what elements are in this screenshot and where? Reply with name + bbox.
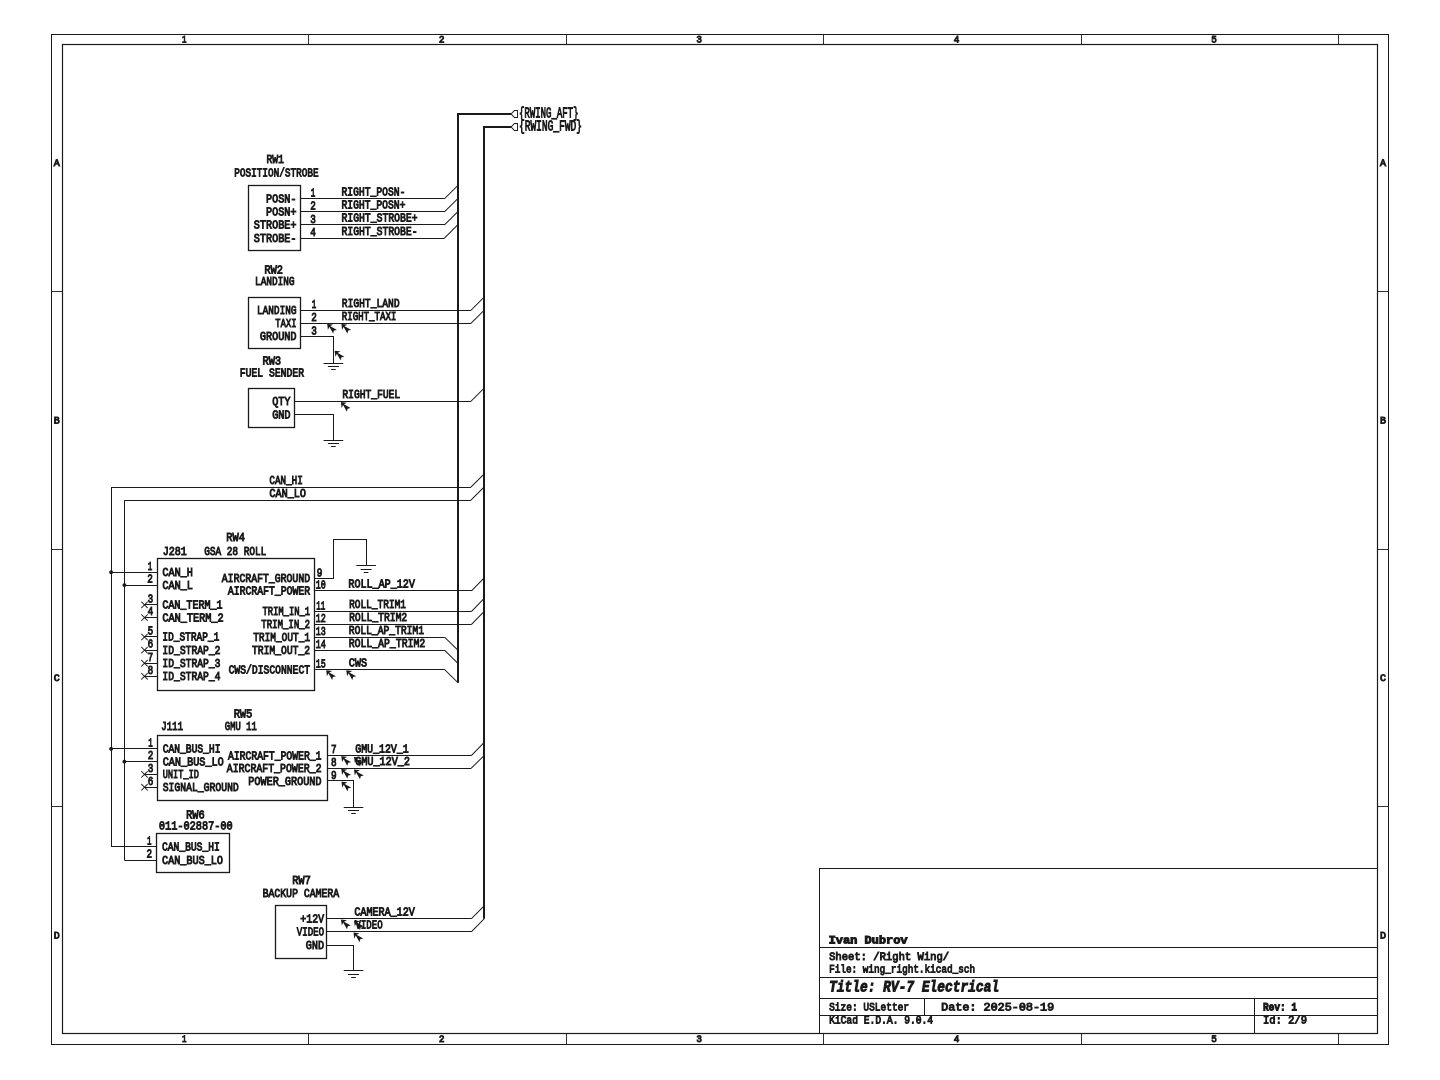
svg-text:POSITION/STROBE: POSITION/STROBE xyxy=(234,166,318,180)
svg-text:B: B xyxy=(54,417,60,428)
bus entry CAN_HI to RWING_FWD xyxy=(471,474,484,487)
RW7 pin VIDEO xyxy=(297,926,324,940)
svg-text:RIGHT_POSN-: RIGHT_POSN- xyxy=(342,186,406,200)
wire CWS xyxy=(314,669,445,671)
net label ROLL_AP_TRIM2 xyxy=(349,637,425,651)
ERC marker 2 on GMU_12V_2 wire xyxy=(354,770,364,780)
net label RIGHT_TAXI xyxy=(342,310,397,324)
bus entry VIDEO to RWING_FWD xyxy=(471,919,484,932)
svg-text:D: D xyxy=(54,932,60,943)
RW5 pin-group label J111 xyxy=(161,720,183,734)
RW4 pin 9 AIRCRAFT_GROUND xyxy=(222,566,323,586)
net label GMU_12V_1 xyxy=(355,742,408,756)
net label CAN_HI xyxy=(269,474,302,488)
ERC marker on RIGHT_TAXI wire xyxy=(327,324,337,334)
hierarchical label {RWING_AFT} xyxy=(511,107,578,123)
wire GMU_12V_2 xyxy=(328,768,472,770)
RW1 pin 1 POSN- xyxy=(266,187,315,207)
no-connect X on RW4 pin 4 xyxy=(141,614,147,620)
frame row dividers xyxy=(51,292,1388,807)
svg-text:1: 1 xyxy=(182,1035,187,1046)
bus entry RIGHT_POSN- to RWING_AFT xyxy=(444,186,457,199)
RW4 pin-group label J281 xyxy=(163,545,187,559)
net label ROLL_AP_12V xyxy=(348,578,415,592)
svg-text:6: 6 xyxy=(148,775,154,789)
connector RW1 body xyxy=(249,186,301,251)
connector RW2 body xyxy=(249,298,301,349)
RW4 pin 6 ID_STRAP_2 (no connect) xyxy=(145,638,221,658)
svg-text:GMU_12V_2: GMU_12V_2 xyxy=(355,755,410,769)
net label RIGHT_STROBE+ xyxy=(342,212,418,226)
svg-text:TRIM_IN_2: TRIM_IN_2 xyxy=(261,618,310,632)
svg-text:CAN_L: CAN_L xyxy=(162,579,193,593)
svg-text:+12V: +12V xyxy=(300,913,324,927)
RW5 pin 7 AIRCRAFT_POWER_1 xyxy=(228,743,337,763)
svg-text:TRIM_OUT_1: TRIM_OUT_1 xyxy=(253,631,310,645)
svg-text:A: A xyxy=(1380,159,1386,170)
net label RIGHT_LAND xyxy=(342,297,400,311)
RW5 pin 3 UNIT_ID (no connect) xyxy=(145,762,200,782)
svg-text:8: 8 xyxy=(331,756,337,770)
bus entry ROLL_AP_TRIM2 to RWING_AFT xyxy=(445,650,458,663)
svg-text:CAN_LO: CAN_LO xyxy=(269,487,306,501)
RW7 pin +12V xyxy=(300,913,324,927)
ERC marker on GMU_12V_2 wire xyxy=(341,769,351,779)
connector RW3 reference label xyxy=(263,355,282,369)
svg-text:2: 2 xyxy=(147,848,153,862)
bus RWING_FWD xyxy=(484,127,511,919)
bus entry RIGHT_FUEL to RWING_FWD xyxy=(471,388,484,401)
svg-text:LANDING: LANDING xyxy=(257,304,297,318)
svg-text:C: C xyxy=(54,674,60,685)
title block title RV-7 Electrical xyxy=(829,979,999,997)
svg-text:ID_STRAP_3: ID_STRAP_3 xyxy=(162,657,220,671)
RW4 pin 10 AIRCRAFT_POWER xyxy=(228,579,326,599)
ERC marker 2 on GMU_12V_1 wire xyxy=(354,757,364,767)
svg-text:011-02887-00: 011-02887-00 xyxy=(159,820,233,834)
net label CWS xyxy=(349,656,367,670)
wire GMU_12V_1 xyxy=(328,755,472,757)
net label CAN_LO xyxy=(269,487,306,501)
svg-text:Size: USLetter: Size: USLetter xyxy=(829,1002,909,1014)
ERC marker on CAMERA_12V wire xyxy=(341,920,351,930)
svg-text:RW1: RW1 xyxy=(267,153,284,167)
svg-text:RIGHT_POSN+: RIGHT_POSN+ xyxy=(342,199,406,213)
svg-text:CAN_HI: CAN_HI xyxy=(269,474,302,488)
connector RW2 value label LANDING xyxy=(255,275,295,289)
wire RIGHT_STROBE+ xyxy=(301,224,444,226)
svg-text:Id: 2/9: Id: 2/9 xyxy=(1263,1016,1307,1028)
ERC marker on RW2 ground wire xyxy=(335,351,345,361)
svg-text:GMU 11: GMU 11 xyxy=(225,720,257,734)
svg-text:2: 2 xyxy=(439,1035,445,1046)
svg-text:RIGHT_FUEL: RIGHT_FUEL xyxy=(342,388,400,402)
bus entry RIGHT_STROBE+ to RWING_AFT xyxy=(444,212,457,225)
bus RWING_AFT xyxy=(458,114,511,683)
svg-text:AIRCRAFT_POWER: AIRCRAFT_POWER xyxy=(228,585,310,599)
wire CAN_LO to RW5 pin 2 xyxy=(124,761,157,763)
wire ROLL_AP_12V xyxy=(314,590,471,592)
connector RW6 value label 011-02887-00 xyxy=(159,820,233,834)
wire ROLL_TRIM1 xyxy=(314,611,471,613)
junction CAN_LO at RW4 xyxy=(123,583,127,587)
svg-text:STROBE+: STROBE+ xyxy=(254,219,297,233)
title block author Ivan Dubrov xyxy=(829,935,908,947)
svg-text:Ivan Dubrov: Ivan Dubrov xyxy=(829,935,908,947)
connector RW7 reference label xyxy=(292,874,311,888)
no-connect X on RW4 pin 3 xyxy=(141,602,147,608)
ERC marker on RW5 ground wire xyxy=(342,782,352,792)
connector RW6 reference label xyxy=(186,808,205,822)
net label RIGHT_STROBE- xyxy=(342,225,418,239)
RW6 pin 1 CAN_BUS_HI xyxy=(147,835,220,855)
bus entry ROLL_TRIM1 to RWING_FWD xyxy=(472,598,485,611)
no-connect X on RW4 pin 5 xyxy=(141,634,147,640)
svg-text:TAXI: TAXI xyxy=(275,317,296,331)
wire RW4 pin 9 to ground xyxy=(314,540,366,579)
svg-text:4: 4 xyxy=(954,1035,960,1046)
svg-text:VIDEO: VIDEO xyxy=(355,919,382,933)
svg-text:8: 8 xyxy=(148,664,154,678)
RW4 pin 8 ID_STRAP_4 (no connect) xyxy=(145,664,221,684)
wire ROLL_AP_TRIM1 xyxy=(314,637,445,639)
svg-text:1: 1 xyxy=(182,35,187,46)
svg-text:FUEL SENDER: FUEL SENDER xyxy=(240,366,304,380)
RW5 pin 8 AIRCRAFT_POWER_2 xyxy=(227,756,337,776)
RW2 pin 3 GROUND xyxy=(260,324,317,344)
connector RW7 body xyxy=(276,906,327,959)
svg-text:ROLL_AP_12V: ROLL_AP_12V xyxy=(348,578,415,592)
svg-text:TRIM_OUT_2: TRIM_OUT_2 xyxy=(252,644,310,658)
ERC marker 2 on RIGHT_TAXI wire xyxy=(341,324,351,334)
net label CAMERA_12V xyxy=(354,906,415,920)
wire ROLL_AP_TRIM2 xyxy=(314,650,445,652)
hierarchical label {RWING_FWD} xyxy=(511,120,582,136)
connector RW2 reference label xyxy=(264,264,283,278)
svg-text:CAN_BUS_LO: CAN_BUS_LO xyxy=(162,854,223,868)
connector RW5 reference label xyxy=(234,707,253,721)
svg-text:ID_STRAP_2: ID_STRAP_2 xyxy=(162,644,220,658)
svg-text:4: 4 xyxy=(148,605,154,619)
RW6 pin 2 CAN_BUS_LO xyxy=(147,848,224,868)
RW3 pin GND xyxy=(272,408,290,422)
no-connect X on RW4 pin 6 xyxy=(141,647,147,653)
ERC marker on VIDEO wire xyxy=(354,933,364,943)
svg-text:ID_STRAP_1: ID_STRAP_1 xyxy=(162,631,219,645)
connector RW1 POSITION/STROBE reference label xyxy=(267,153,284,167)
ERC marker 2 on CWS wire xyxy=(346,670,356,680)
svg-text:{RWING_FWD}: {RWING_FWD} xyxy=(519,120,582,136)
svg-text:3: 3 xyxy=(696,35,702,46)
svg-text:5: 5 xyxy=(1211,1035,1217,1046)
svg-text:7: 7 xyxy=(148,651,154,665)
wire CAN_LO xyxy=(125,501,471,861)
RW4 pin 4 CAN_TERM_2 (no connect) xyxy=(145,605,224,625)
svg-text:D: D xyxy=(1380,932,1386,943)
svg-text:C: C xyxy=(1380,674,1386,685)
svg-text:CAN_TERM_2: CAN_TERM_2 xyxy=(162,611,223,625)
title block sheet name xyxy=(829,952,949,964)
net label RIGHT_POSN- xyxy=(342,186,406,200)
RW4 pin 13 TRIM_OUT_1 xyxy=(253,625,326,645)
svg-text:CAN_BUS_HI: CAN_BUS_HI xyxy=(162,841,220,855)
RW3 pin QTY xyxy=(272,395,291,409)
svg-text:CAMERA_12V: CAMERA_12V xyxy=(354,906,415,920)
bus entry GMU_12V_2 to RWING_FWD xyxy=(471,756,484,769)
wire RIGHT_LAND xyxy=(301,310,471,312)
wire ROLL_TRIM2 xyxy=(314,624,471,626)
bus entry RIGHT_LAND to RWING_FWD xyxy=(471,297,484,310)
svg-text:SIGNAL_GROUND: SIGNAL_GROUND xyxy=(163,781,239,795)
svg-text:GROUND: GROUND xyxy=(260,330,297,344)
wire CAN_HI xyxy=(112,488,471,847)
svg-text:Title: RV-7 Electrical: Title: RV-7 Electrical xyxy=(829,979,999,997)
RW4 pin 2 CAN_L xyxy=(147,573,193,593)
bus entry RIGHT_POSN+ to RWING_AFT xyxy=(444,199,457,212)
RW2 pin 2 TAXI xyxy=(275,311,317,331)
wire RW3 ground xyxy=(295,415,334,441)
svg-text:2: 2 xyxy=(439,35,445,46)
svg-text:VIDEO: VIDEO xyxy=(297,926,324,940)
title block paper size xyxy=(829,1002,909,1014)
connector RW4 value label GSA 28 ROLL xyxy=(204,545,266,559)
RW7 pin GND xyxy=(306,939,324,953)
wire CAMERA_12V xyxy=(327,918,471,920)
svg-text:6: 6 xyxy=(148,638,154,652)
svg-text:TRIM_IN_1: TRIM_IN_1 xyxy=(263,605,311,619)
svg-text:3: 3 xyxy=(696,1035,702,1046)
net label ROLL_TRIM2 xyxy=(349,611,407,625)
svg-text:RIGHT_STROBE+: RIGHT_STROBE+ xyxy=(342,212,418,226)
RW5 pin 2 CAN_BUS_LO xyxy=(148,749,224,769)
connector RW5 body xyxy=(158,736,328,801)
svg-text:Rev: 1: Rev: 1 xyxy=(1263,1002,1297,1014)
svg-text:2: 2 xyxy=(147,573,153,587)
RW1 pin 2 POSN+ xyxy=(266,200,316,220)
junction CAN_LO at RW5 xyxy=(123,760,127,764)
svg-text:Sheet: /Right Wing/: Sheet: /Right Wing/ xyxy=(829,952,949,964)
ground symbol GND RW3 xyxy=(324,441,344,447)
bus entry ROLL_AP_12V to RWING_FWD xyxy=(472,578,485,591)
wire RIGHT_POSN+ xyxy=(301,211,444,213)
frame row labels A-D xyxy=(54,159,1386,942)
connector RW1 value label POSITION/STROBE xyxy=(234,166,318,180)
title block revision xyxy=(1263,1002,1297,1014)
bus entry CAN_LO to RWING_FWD xyxy=(471,487,484,500)
title block date xyxy=(941,1002,1054,1014)
svg-text:POWER_GROUND: POWER_GROUND xyxy=(248,775,321,789)
RW4 pin 5 ID_STRAP_1 (no connect) xyxy=(145,625,220,645)
bus entry CAMERA_12V to RWING_FWD xyxy=(471,906,484,919)
svg-text:J111: J111 xyxy=(161,720,183,734)
svg-text:ROLL_TRIM2: ROLL_TRIM2 xyxy=(349,611,407,625)
svg-text:RW4: RW4 xyxy=(226,531,245,545)
ERC marker on RIGHT_FUEL wire xyxy=(341,402,351,412)
wire RIGHT_POSN- xyxy=(301,198,444,200)
svg-text:RIGHT_STROBE-: RIGHT_STROBE- xyxy=(342,225,418,239)
no-connect X on RW4 pin 8 xyxy=(141,673,147,679)
RW4 pin 3 CAN_TERM_1 (no connect) xyxy=(145,593,223,613)
svg-text:GSA 28 ROLL: GSA 28 ROLL xyxy=(204,545,266,559)
wire CAN_LO to RW4 pin 2 xyxy=(124,585,157,587)
ground symbol GND RW7 xyxy=(344,971,364,978)
svg-text:GND: GND xyxy=(306,939,324,953)
RW4 pin 12 TRIM_IN_2 xyxy=(261,612,326,632)
ground symbol GND RW2 xyxy=(324,364,344,370)
wire VIDEO xyxy=(327,931,471,933)
connector RW7 value label BACKUP CAMERA xyxy=(263,887,340,901)
no-connect X on RW5 pin 3 xyxy=(141,771,147,777)
no-connect X on RW5 pin 6 xyxy=(141,784,147,790)
bus entry ROLL_AP_TRIM1 to RWING_AFT xyxy=(445,637,458,650)
title block sheet id xyxy=(1263,1016,1307,1028)
svg-text:POSN-: POSN- xyxy=(266,193,297,207)
no-connect X on RW4 pin 7 xyxy=(141,660,147,666)
bus entry GMU_12V_1 to RWING_FWD xyxy=(471,743,484,756)
connector RW3 body xyxy=(249,389,295,428)
connector RW4 body xyxy=(158,559,315,691)
wire CAN_LO to RW6 pin 2 xyxy=(124,860,156,862)
net label VIDEO xyxy=(355,919,382,933)
title block file name xyxy=(829,965,975,977)
bus entry ROLL_TRIM2 to RWING_FWD xyxy=(472,612,485,625)
svg-text:BACKUP CAMERA: BACKUP CAMERA xyxy=(263,887,340,901)
RW2 pin 1 LANDING xyxy=(257,298,316,318)
svg-text:A: A xyxy=(54,159,60,170)
svg-text:CWS: CWS xyxy=(349,656,367,670)
bus entry RIGHT_TAXI to RWING_FWD xyxy=(471,310,484,323)
svg-text:RIGHT_LAND: RIGHT_LAND xyxy=(342,297,400,311)
svg-text:ROLL_AP_TRIM1: ROLL_AP_TRIM1 xyxy=(349,624,424,638)
svg-text:KiCad E.D.A. 9.0.4: KiCad E.D.A. 9.0.4 xyxy=(829,1016,933,1028)
wire RW7 ground xyxy=(327,946,354,972)
title block outline xyxy=(820,869,1378,1034)
RW4 pin 7 ID_STRAP_3 (no connect) xyxy=(145,651,221,671)
title block KiCad version xyxy=(829,1016,933,1028)
ERC marker 2 on CAMERA_12V wire xyxy=(354,920,364,930)
wire RW2 ground xyxy=(301,337,334,364)
svg-text:File: wing_right.kicad_sch: File: wing_right.kicad_sch xyxy=(829,965,975,977)
svg-text:ID_STRAP_4: ID_STRAP_4 xyxy=(162,670,220,684)
RW4 pin 14 TRIM_OUT_2 xyxy=(252,638,326,658)
svg-text:5: 5 xyxy=(1211,35,1217,46)
wire RW5 pin 9 to ground xyxy=(328,781,354,808)
junction CAN_HI at RW5 xyxy=(109,747,113,751)
svg-text:Date: 2025-08-19: Date: 2025-08-19 xyxy=(941,1002,1054,1014)
svg-text:4: 4 xyxy=(310,226,316,240)
svg-text:GND: GND xyxy=(272,408,290,422)
title block row lines xyxy=(820,948,1378,1034)
net label RIGHT_POSN+ xyxy=(342,199,406,213)
svg-text:ROLL_TRIM1: ROLL_TRIM1 xyxy=(349,598,406,612)
RW4 pin 1 CAN_H xyxy=(148,560,193,580)
ERC marker on CWS wire xyxy=(326,670,336,680)
RW1 pin 3 STROBE+ xyxy=(254,213,316,233)
wire RIGHT_TAXI xyxy=(301,323,471,325)
svg-text:RIGHT_TAXI: RIGHT_TAXI xyxy=(342,310,397,324)
svg-text:QTY: QTY xyxy=(272,395,291,409)
connector RW6 body xyxy=(157,834,230,873)
frame column dividers xyxy=(309,34,1339,1044)
svg-text:J281: J281 xyxy=(163,545,187,559)
wire CAN_HI to RW5 pin 1 xyxy=(111,748,158,750)
RW5 pin 6 SIGNAL_GROUND (no connect) xyxy=(145,775,239,795)
net label RIGHT_FUEL xyxy=(342,388,400,402)
junction CAN_HI at RW4 xyxy=(109,570,113,574)
RW1 pin 4 STROBE- xyxy=(254,226,316,246)
ERC marker on GMU_12V_1 wire xyxy=(341,756,351,766)
wire CAN_HI to RW6 pin 1 xyxy=(111,846,157,848)
svg-text:CWS/DISCONNECT: CWS/DISCONNECT xyxy=(229,663,311,677)
svg-text:STROBE-: STROBE- xyxy=(254,232,297,246)
net label GMU_12V_2 xyxy=(355,755,410,769)
connector RW4 reference label xyxy=(226,531,245,545)
wire RIGHT_STROBE- xyxy=(301,238,444,240)
net label ROLL_AP_TRIM1 xyxy=(349,624,424,638)
svg-text:B: B xyxy=(1380,417,1386,428)
svg-text:ROLL_AP_TRIM2: ROLL_AP_TRIM2 xyxy=(349,637,425,651)
ground symbol GND RW4 xyxy=(356,566,376,573)
svg-text:LANDING: LANDING xyxy=(255,275,295,289)
RW4 pin 11 TRIM_IN_1 xyxy=(263,599,326,619)
bus entry RIGHT_STROBE- to RWING_AFT xyxy=(444,225,457,238)
svg-text:5: 5 xyxy=(148,625,154,639)
wire CAN_HI to RW4 pin 1 xyxy=(111,572,158,574)
RW5 pin 1 CAN_BUS_HI xyxy=(148,736,220,756)
wire RIGHT_FUEL xyxy=(295,401,471,403)
ground symbol GND RW5 xyxy=(344,808,364,814)
connector RW3 value label FUEL SENDER xyxy=(240,366,304,380)
svg-text:POSN+: POSN+ xyxy=(266,206,297,220)
connector RW5 value label GMU 11 xyxy=(225,720,257,734)
bus entry CWS to RWING_AFT xyxy=(445,670,458,683)
net label ROLL_TRIM1 xyxy=(349,598,406,612)
frame column labels 1-5 xyxy=(182,35,1217,1046)
RW4 pin 15 CWS/DISCONNECT xyxy=(229,657,326,677)
svg-text:4: 4 xyxy=(954,35,960,46)
RW5 pin 9 POWER_GROUND xyxy=(248,769,336,789)
